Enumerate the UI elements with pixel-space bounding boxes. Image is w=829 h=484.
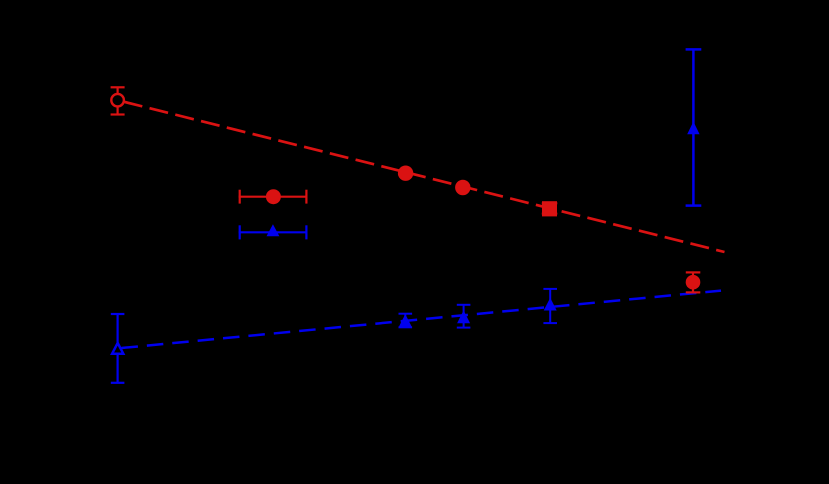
legend blue triangle marker [267,224,280,236]
blue point 2 filled triangle marker [399,314,412,327]
red point 5 filled circle marker [686,275,701,290]
blue point 1 open triangle marker [112,343,123,354]
legend red circle marker [266,189,281,204]
blue point 3 filled triangle marker [457,310,470,323]
legend blue entry errorbar handle [239,225,308,239]
blue point 2 error bar [399,314,413,328]
blue point 3 error bar [457,305,471,328]
red dashed fit line [118,100,725,252]
red point 4 filled square marker [542,201,557,216]
blue point 5 error bar [686,49,702,205]
red point 3 filled circle marker [455,180,470,195]
blue point 4 error bar [543,289,557,323]
blue point 5 filled triangle marker [687,122,699,135]
red point 1 open circle marker [111,94,124,107]
blue dashed fit line [118,291,721,349]
red point 5 error bar [686,272,701,292]
blue point 4 filled triangle marker [544,298,557,311]
blue point 1 error bar [111,314,125,383]
red point 2 filled circle marker [398,166,413,181]
legend red entry errorbar handle [239,190,308,204]
red point 4 error bar [542,203,558,213]
red point 1 error bar [111,87,125,114]
